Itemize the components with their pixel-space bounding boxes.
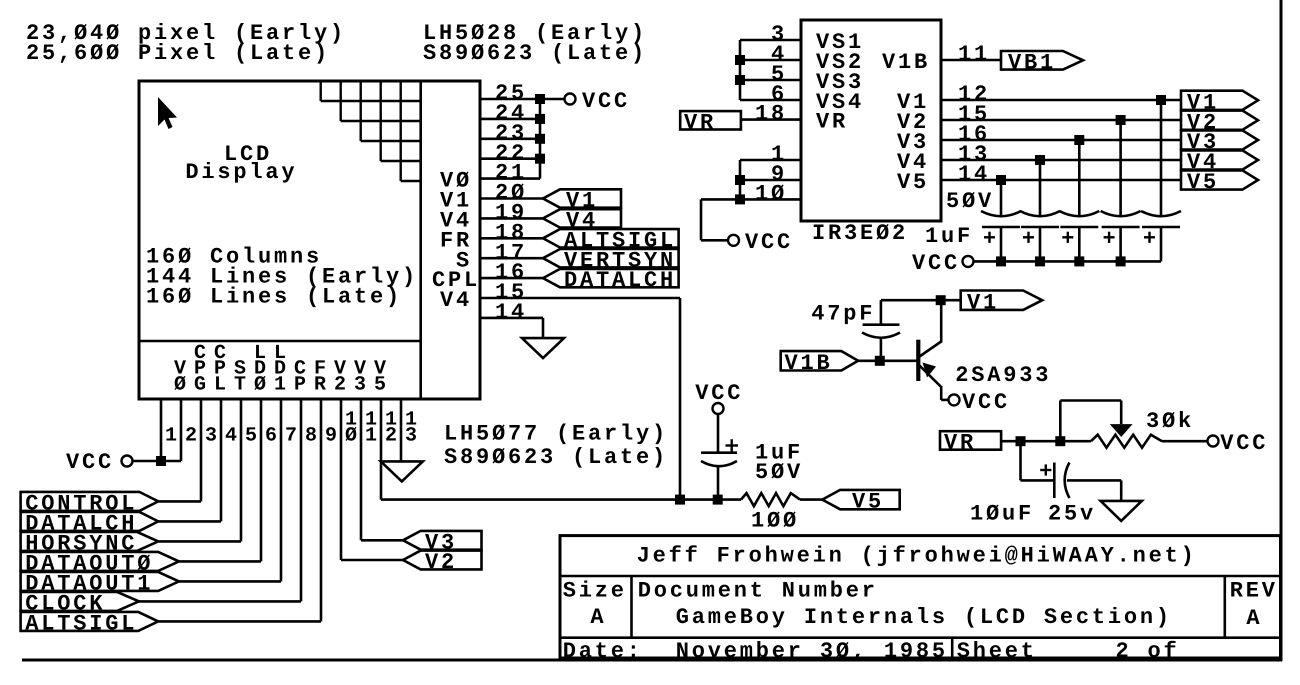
flag V1 transistor — [961, 291, 1042, 310]
LCD bottom pin 6 stub — [260, 399, 263, 561]
svg-text:V5: V5 — [1187, 170, 1219, 195]
flag V1B — [781, 351, 858, 370]
LCD pin 21 stub — [480, 177, 540, 180]
capacitor C4 1uF bank — [1101, 211, 1141, 216]
LCD pin 25 stub — [480, 98, 540, 101]
svg-text:25,6ØØ Pixel (Late): 25,6ØØ Pixel (Late) — [26, 41, 330, 66]
LCD pin 23 stub — [480, 138, 540, 141]
svg-text:2: 2 — [385, 425, 402, 448]
wire ALTSIGL to LCD pin — [158, 620, 321, 623]
svg-text:4: 4 — [225, 425, 242, 448]
wire pin10 to VCC — [700, 199, 703, 240]
flag VR upper — [680, 111, 741, 129]
wire HORSYNC to LCD pin — [158, 540, 241, 543]
svg-text:VCC: VCC — [582, 89, 630, 114]
LCD bottom pin 7 stub — [280, 399, 283, 581]
svg-text:V5: V5 — [897, 170, 929, 195]
wire DATAOUTØ to LCD pin — [179, 560, 261, 563]
svg-text:VCC: VCC — [1220, 431, 1268, 456]
svg-text:VCC: VCC — [66, 450, 114, 475]
IR3E02 pin 16 net wire — [941, 139, 1181, 142]
title block frame — [560, 536, 1281, 658]
svg-text:2: 2 — [185, 425, 202, 448]
LCD bottom pin 4 stub — [220, 399, 223, 521]
wire VCC to pins 1,2 — [133, 460, 182, 463]
mouse cursor — [158, 97, 177, 129]
LCD pin 14 stub — [480, 317, 543, 320]
IR3E02 pin 1 stub — [740, 159, 801, 162]
potentiometer wiper arrow — [1110, 424, 1133, 437]
IR3E02 pin 11 stub — [941, 59, 1001, 62]
svg-text:T: T — [234, 373, 251, 396]
IR3E02 pin 18 stub — [741, 118, 801, 121]
svg-text:Sheet: Sheet — [957, 639, 1037, 664]
LCD staircase pattern — [320, 81, 322, 101]
svg-text:14: 14 — [958, 162, 990, 187]
svg-text:7: 7 — [285, 425, 302, 448]
VCC terminal IR3E02 — [728, 235, 739, 246]
svg-text:5ØV: 5ØV — [755, 460, 803, 485]
flag CONTROL — [21, 492, 159, 511]
svg-text:Size: Size — [563, 579, 627, 604]
svg-text:Ø: Ø — [174, 373, 191, 396]
VCC terminal right — [1208, 436, 1219, 447]
wire pin11 to V3 flag — [361, 539, 403, 542]
svg-text:1: 1 — [365, 425, 382, 448]
svg-text:25v: 25v — [1048, 502, 1096, 527]
svg-text:1ØuF: 1ØuF — [970, 502, 1034, 527]
wire drop to capacitor at x=1161 — [1160, 100, 1163, 215]
IR3E02 pin 14 net wire — [941, 179, 1181, 182]
svg-text:Ø: Ø — [345, 425, 362, 448]
capacitor C2 1uF bank — [1020, 211, 1060, 216]
LCD display inner horizontal divider — [139, 340, 421, 343]
wire drop to capacitor at x=1040 — [1039, 160, 1042, 215]
flag V5 output — [1181, 170, 1258, 189]
LCD display inner vertical divider — [419, 81, 422, 399]
svg-text:V1B: V1B — [882, 50, 930, 75]
svg-text:P: P — [294, 373, 311, 396]
LCD pin 19 stub — [480, 217, 544, 220]
svg-text:2: 2 — [334, 373, 351, 396]
flag DATALCH — [21, 512, 159, 531]
svg-text:1Ø: 1Ø — [755, 182, 787, 207]
wire pin25 to VCC terminal — [540, 98, 565, 101]
LCD pin 22 stub — [480, 157, 540, 160]
flag V3 output — [1181, 130, 1258, 149]
ground symbol near pin14 — [522, 338, 564, 358]
svg-text:R: R — [314, 373, 331, 396]
svg-text:IR3EØ2: IR3EØ2 — [812, 221, 908, 246]
IR3E02 pin 5 stub — [740, 79, 801, 82]
svg-text:1: 1 — [274, 373, 291, 396]
flag VR lower — [940, 431, 1001, 450]
svg-text:November 3Ø, 1985: November 3Ø, 1985 — [676, 639, 948, 664]
IR3E02 pin 9 stub — [740, 179, 801, 182]
sheet right border — [1280, 0, 1283, 661]
IR3E02 pin 6 stub — [740, 99, 801, 102]
VCC bus under capacitor bank — [974, 260, 1162, 263]
svg-text:A: A — [590, 605, 606, 630]
potentiometer wiper wire — [1059, 401, 1062, 442]
flag ALTSIGL — [21, 612, 159, 631]
title block rev cell divider — [1224, 576, 1227, 638]
wire CLOCK to LCD pin — [139, 600, 301, 603]
svg-text:5ØV: 5ØV — [946, 189, 994, 214]
svg-text:3: 3 — [205, 425, 222, 448]
svg-text:GameBoy Internals (LCD Section: GameBoy Internals (LCD Section) — [676, 605, 1172, 630]
svg-text:DATALCH: DATALCH — [564, 268, 676, 293]
svg-text:2SA933: 2SA933 — [955, 363, 1051, 388]
wire resistor to V5 flag — [800, 498, 822, 501]
LCD bottom pin 1 stub — [160, 399, 163, 461]
svg-text:V2: V2 — [425, 550, 457, 575]
svg-text:LH5Ø77 (Early): LH5Ø77 (Early) — [444, 422, 668, 447]
resistor 100 ohm — [741, 493, 800, 506]
capacitor 1uF 50V — [717, 414, 720, 453]
svg-text:VR: VR — [684, 110, 716, 135]
flag V3 — [403, 531, 482, 550]
wire pin15 down to V5 net — [679, 298, 682, 500]
capacitor 10uF 25v — [1019, 441, 1022, 480]
svg-text:3: 3 — [354, 373, 371, 396]
IC IR3E02 body — [801, 20, 941, 221]
LCD display module body — [139, 81, 480, 399]
IR3E02 pin 4 stub — [740, 59, 801, 62]
wire drop to capacitor at x=1001 — [1000, 180, 1003, 215]
svg-text:L: L — [214, 373, 231, 396]
svg-text:REV: REV — [1230, 579, 1278, 604]
VCC terminal emitter — [949, 394, 960, 405]
svg-text:V1B: V1B — [785, 351, 833, 376]
svg-text:14: 14 — [495, 300, 527, 325]
title block row divider 1 — [560, 575, 1281, 578]
LCD bottom pin 5 stub — [240, 399, 243, 541]
svg-text:5: 5 — [374, 373, 391, 396]
wire pin10 to V2 flag — [341, 559, 403, 562]
LCD bottom pin 11 stub — [360, 399, 363, 540]
svg-text:Ø: Ø — [254, 373, 271, 396]
svg-text:Display: Display — [185, 160, 297, 185]
LCD pin 16 stub — [480, 277, 544, 280]
capacitor C1 1uF bank — [981, 211, 1021, 216]
IR3E02 pin 12 net wire — [941, 99, 1181, 102]
svg-text:18: 18 — [755, 102, 787, 127]
wire 30k to VCC — [1162, 440, 1208, 443]
LCD bottom pin 13 stub — [400, 399, 403, 461]
svg-text:VCC: VCC — [912, 251, 960, 276]
svg-text:VCC: VCC — [745, 230, 793, 255]
LCD bottom pin 8 stub — [300, 399, 303, 601]
IR3E02 pin 3 stub — [740, 39, 801, 42]
capacitor C5 1uF bank — [1141, 211, 1181, 216]
ground symbol right — [1101, 501, 1142, 521]
svg-text:8: 8 — [305, 425, 322, 448]
svg-text:VB1: VB1 — [1008, 50, 1056, 75]
svg-text:V1: V1 — [967, 290, 999, 315]
LCD bottom pin 12 stub — [380, 399, 383, 500]
svg-text:Jeff Frohwein (jfrohwei@HiWAAY: Jeff Frohwein (jfrohwei@HiWAAY.net) — [637, 544, 1197, 569]
svg-text:VCC: VCC — [962, 390, 1010, 415]
flag DATAOUTØ — [21, 552, 179, 571]
title block row divider 2 — [560, 636, 1281, 639]
title block sheet cell divider — [951, 638, 954, 658]
svg-text:9: 9 — [325, 425, 342, 448]
LCD bottom pin 10 stub — [340, 399, 343, 560]
flag V4 output — [1181, 150, 1258, 169]
svg-text:16Ø Lines (Late): 16Ø Lines (Late) — [146, 285, 402, 310]
svg-text:V4: V4 — [440, 288, 472, 313]
flag DATAOUT1 — [21, 572, 179, 591]
VCC terminal capacitor bank — [963, 256, 974, 267]
svg-text:3Øk: 3Øk — [1146, 409, 1194, 434]
IR3E02 pin 13 net wire — [941, 159, 1181, 162]
wire VR to resistor 30k — [1001, 440, 1091, 443]
svg-text:1: 1 — [165, 425, 182, 448]
LCD bottom pin 2 stub — [180, 399, 183, 461]
wire DATAOUT1 to LCD pin — [179, 580, 281, 583]
svg-text:2 of: 2 of — [1116, 639, 1180, 664]
svg-text:3: 3 — [405, 425, 422, 448]
wire pin14 to ground — [542, 318, 545, 338]
flag V5 — [822, 490, 899, 509]
wire DATALCH to LCD pin — [158, 520, 221, 523]
svg-text:11: 11 — [958, 42, 990, 67]
svg-text:6: 6 — [265, 425, 282, 448]
ground symbol near pin13 — [381, 461, 423, 481]
wire 10uF to ground — [1067, 479, 1121, 482]
resistor R 30k — [1091, 435, 1162, 448]
flag ALTSIGL on pin18 — [543, 229, 679, 247]
svg-text:VR: VR — [816, 110, 848, 135]
wire drop to capacitor at x=1120.6 — [1119, 120, 1122, 215]
flag DATALCH on pin16 — [543, 269, 679, 287]
flag V1 output — [1181, 91, 1258, 110]
svg-text:A: A — [1246, 606, 1262, 631]
svg-text:5: 5 — [245, 425, 262, 448]
LCD bottom pin 3 stub — [200, 399, 203, 501]
sheet bottom border — [22, 659, 1282, 662]
wire V5 net horizontal — [381, 498, 741, 501]
capacitor C3 1uF bank — [1059, 211, 1099, 216]
svg-text:47pF: 47pF — [811, 302, 875, 327]
flag V2 — [403, 551, 482, 570]
svg-text:Date:: Date: — [563, 639, 643, 664]
wire 47pF top to V1 flag — [881, 299, 961, 302]
svg-text:1uF: 1uF — [925, 224, 973, 249]
title block size cell divider — [630, 576, 633, 638]
wire V1B to transistor base — [858, 359, 917, 362]
svg-text:Document Number: Document Number — [638, 579, 878, 604]
wire VCC tie pins 25-21 — [539, 99, 542, 179]
LCD pin 17 stub — [480, 257, 544, 260]
wire tie pins 1,9,10 — [739, 160, 742, 199]
flag V2 output — [1181, 111, 1258, 130]
flag VERTSYN on pin17 — [543, 249, 679, 267]
wire drop to capacitor at x=1079.3 — [1078, 140, 1081, 215]
flag HORSYNC — [21, 532, 159, 551]
LCD pin 20 stub — [480, 197, 544, 200]
svg-text:S89Ø623 (Late): S89Ø623 (Late) — [444, 445, 668, 470]
svg-text:G: G — [194, 373, 211, 396]
svg-text:VR: VR — [944, 431, 976, 456]
flag V4 on pin19 — [543, 209, 621, 227]
svg-text:V5: V5 — [852, 490, 884, 515]
transistor Q1 2SA933 — [916, 340, 920, 381]
svg-text:ALTSIGL: ALTSIGL — [25, 612, 137, 637]
svg-text:S89Ø623 (Late): S89Ø623 (Late) — [423, 41, 647, 66]
flag VB1 — [1001, 51, 1083, 70]
LCD bottom pin 9 stub — [320, 399, 323, 621]
IR3E02 pin 15 net wire — [941, 119, 1181, 122]
wire CONTROL to LCD pin — [158, 500, 201, 503]
wire tie pins 3-6 — [739, 40, 742, 100]
LCD pin 18 stub — [480, 237, 544, 240]
flag V1 on pin20 — [543, 189, 621, 207]
IR3E02 pin 10 stub — [701, 198, 801, 201]
LCD pin 15 stub — [480, 297, 680, 300]
LCD pin 24 stub — [480, 118, 540, 121]
VCC terminal top — [565, 94, 576, 105]
svg-text:1ØØ: 1ØØ — [751, 509, 799, 534]
flag CLOCK — [21, 592, 139, 611]
